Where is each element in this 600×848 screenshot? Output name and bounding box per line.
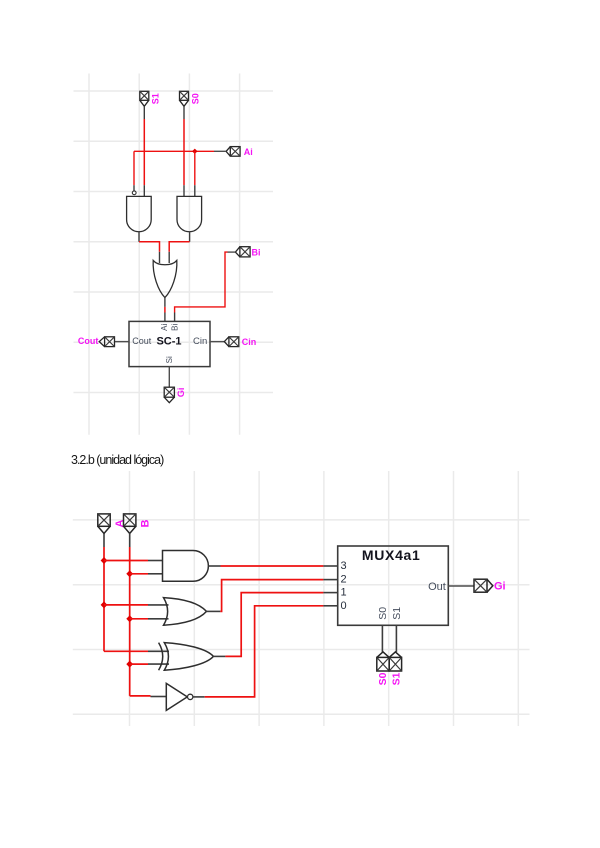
NOT bubble — [188, 694, 193, 699]
svg-text:Cout: Cout — [132, 336, 152, 346]
wire S0 pin stub — [183, 106, 185, 119]
svg-text:Bi: Bi — [252, 247, 261, 257]
TOPFIG — [78, 91, 261, 402]
wire Cin pin — [210, 341, 224, 343]
svg-text:0: 0 — [341, 600, 347, 612]
XOR gate U4 body — [164, 643, 213, 671]
wire OR out red seg — [164, 307, 166, 313]
heading text — [71, 453, 164, 467]
svg-text:B: B — [139, 519, 151, 527]
junction B-AND — [126, 570, 133, 577]
wire S1 vertical — [143, 119, 145, 185]
stub OR input1 — [148, 604, 169, 606]
wire AND_R out corner — [169, 242, 189, 252]
stub AND input2 — [148, 573, 163, 575]
wire Cout pin — [115, 341, 130, 343]
wire stub OR right input — [168, 252, 170, 263]
svg-text:S0: S0 — [377, 672, 389, 685]
wire Out pin — [448, 585, 474, 587]
svg-text:Cin: Cin — [242, 337, 256, 347]
wire OR output stub — [164, 298, 166, 307]
bubble AND_L input — [132, 191, 136, 195]
wire S0 gate stub — [183, 185, 185, 196]
svg-text:S1: S1 — [391, 607, 403, 620]
svg-text:S0: S0 — [377, 607, 389, 620]
OR gate U3 — [164, 598, 207, 626]
junction A-AND — [101, 557, 108, 564]
svg-text:2: 2 — [341, 574, 347, 586]
stub MUX pin2 — [323, 579, 337, 581]
terminal Ai — [226, 147, 240, 157]
XOR gate U4 arc — [159, 643, 163, 671]
wire AND to MUX pin3 — [221, 565, 324, 567]
terminal S1 bottom — [389, 652, 401, 671]
block U6 MUX4a1 — [338, 546, 449, 625]
wire S1 pin stub — [143, 106, 145, 119]
wire A pin stub — [103, 534, 105, 548]
svg-text:Bi: Bi — [170, 324, 179, 331]
wire S1 pin — [395, 625, 397, 652]
wire AND_L output stub — [138, 232, 140, 242]
svg-text:MUX4a1: MUX4a1 — [362, 547, 421, 563]
svg-text:Cin: Cin — [193, 336, 207, 347]
wire A to AND input1 — [104, 560, 148, 562]
stub OR output — [207, 610, 221, 612]
svg-text:Ai: Ai — [244, 147, 253, 157]
stub XOR input1 — [148, 650, 169, 652]
svg-text:Ai: Ai — [160, 324, 169, 331]
svg-text:Si: Si — [165, 356, 174, 363]
wire XOR to MUX pin1 — [225, 593, 323, 657]
NOT gate U5 — [166, 683, 187, 710]
wire stub pin Ai of U1 — [164, 313, 166, 322]
svg-text:Gi: Gi — [494, 581, 506, 593]
stub NOT input — [151, 696, 167, 698]
wire AND_L out corner — [139, 242, 160, 252]
stub MUX pin0 — [323, 605, 337, 607]
GRID_TOP — [74, 74, 274, 435]
wire net B vertical — [129, 547, 131, 696]
svg-text:Cout: Cout — [78, 336, 99, 346]
svg-text:3: 3 — [341, 560, 347, 572]
AND gate U-left — [127, 196, 152, 231]
stub OR input2 — [148, 618, 169, 620]
wire Ai terminal stub — [214, 150, 226, 152]
AND gate U-right — [177, 196, 202, 231]
terminal S0 bottom — [377, 652, 389, 671]
stub XOR input2 — [148, 663, 169, 665]
wire NOT to MUX pin0 — [205, 606, 324, 697]
svg-text:SC-1: SC-1 — [156, 335, 181, 347]
stub NOT output — [193, 696, 205, 698]
terminal Bi — [235, 247, 250, 257]
terminal Cout — [99, 337, 114, 347]
GRID_BOTTOM — [73, 471, 530, 726]
wire Bi terminal stub — [228, 251, 236, 253]
wire S1 gate stub — [143, 185, 145, 196]
wire stub pin Bi of U1 — [174, 313, 176, 322]
wire Ai horizontal — [134, 150, 214, 152]
stub MUX pin1 — [323, 592, 337, 594]
wire stub AND_R right input — [194, 185, 196, 196]
wire stub AND_L bubble input — [133, 185, 135, 190]
wire A to OR input1 — [104, 604, 148, 606]
wire B pin stub — [129, 534, 131, 548]
wire Ai drop to AND_L bubble — [133, 151, 135, 185]
svg-text:3.2.b (unidad lógica): 3.2.b (unidad lógica) — [71, 453, 164, 467]
wire Ai drop to AND_R — [194, 151, 196, 185]
wire B to OR input2 — [130, 618, 148, 620]
junction Ai-S0col — [192, 149, 197, 154]
wire B to XOR input2 — [130, 663, 148, 665]
wire B to AND input2 — [130, 573, 148, 575]
wire net A vertical — [103, 547, 105, 651]
terminal Gi out — [474, 579, 493, 592]
junction B-OR — [126, 615, 133, 622]
wire B to NOT input — [130, 695, 151, 697]
BOTFIG — [98, 514, 506, 711]
stub AND input1 — [148, 560, 163, 562]
terminal S0 — [180, 91, 189, 106]
svg-text:S1: S1 — [390, 672, 402, 685]
wire S0 pin — [381, 625, 383, 652]
junction B-XOR — [126, 661, 133, 668]
wire stub OR left input — [159, 252, 161, 263]
svg-text:1: 1 — [341, 587, 347, 599]
AND gate U2 — [163, 551, 209, 582]
svg-text:S0: S0 — [191, 93, 201, 104]
block U1 SC-1 — [129, 321, 210, 366]
terminal A — [98, 514, 110, 534]
terminal S1 — [140, 91, 149, 106]
wire Si pin — [168, 367, 170, 388]
stub AND output — [208, 565, 220, 567]
wire AND_R output stub — [189, 232, 191, 242]
wire OR to MUX pin2 — [220, 580, 323, 612]
terminal Cin — [224, 337, 239, 347]
wire Bi down and left — [175, 252, 228, 312]
wire S0 vertical — [183, 119, 185, 185]
wire A to XOR input1 — [104, 650, 148, 652]
stub XOR output — [213, 655, 225, 657]
terminal Gi — [164, 387, 174, 403]
svg-text:S1: S1 — [151, 93, 161, 104]
svg-text:Gi: Gi — [176, 388, 186, 398]
stub MUX pin3 — [323, 565, 337, 567]
terminal B — [123, 514, 135, 534]
svg-text:Out: Out — [428, 581, 446, 593]
junction A-OR — [101, 601, 108, 608]
OR gate down — [153, 260, 177, 297]
